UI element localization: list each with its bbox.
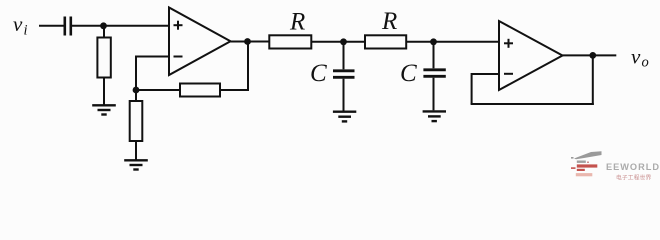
resistor R4 (feedback) — [180, 84, 220, 97]
resistor R5 (vertical, to ground) — [130, 101, 143, 141]
node C (opamp1 output) — [244, 38, 251, 45]
op-amp U2 plus input marker — [504, 39, 513, 48]
svg-text:R: R — [289, 9, 305, 36]
wire — [247, 42, 249, 92]
wire — [39, 25, 64, 27]
capacitor C1 — [333, 42, 355, 111]
node vo label — [631, 45, 649, 71]
resistor R2 — [365, 35, 406, 48]
node vi label — [13, 12, 28, 38]
node E — [430, 38, 437, 45]
op-amp U1 plus input marker — [174, 21, 183, 30]
node D — [340, 38, 347, 45]
wire — [563, 54, 617, 56]
wire — [72, 25, 169, 27]
svg-text:C: C — [400, 60, 417, 87]
ground — [423, 111, 446, 121]
capacitor C-in — [65, 17, 71, 36]
wire — [471, 103, 594, 105]
resistor R3 (vertical, input bias) — [97, 38, 110, 78]
capacitor C2 — [423, 42, 445, 111]
op-amp U1 minus input marker — [174, 56, 183, 58]
op-amp U2 minus input marker — [504, 73, 513, 75]
svg-text:v: v — [13, 12, 23, 36]
wire — [136, 89, 180, 91]
svg-text:R: R — [381, 8, 397, 35]
wire — [592, 55, 594, 105]
wire — [103, 78, 105, 105]
node B — [133, 87, 140, 94]
wire — [135, 90, 137, 101]
svg-text:C: C — [310, 60, 327, 87]
wire — [135, 141, 137, 160]
ground — [92, 105, 116, 114]
wire — [220, 89, 248, 91]
wire — [472, 73, 499, 75]
wire — [135, 56, 137, 91]
wire — [231, 41, 270, 43]
wire — [103, 26, 105, 38]
svg-text:v: v — [631, 45, 641, 69]
wire — [311, 41, 365, 43]
ground — [124, 160, 148, 169]
EEWORLD logo mark — [571, 151, 602, 176]
svg-text:o: o — [642, 55, 649, 71]
svg-text:EEWORLD: EEWORLD — [606, 162, 660, 172]
svg-text:i: i — [24, 23, 28, 39]
node A — [100, 22, 107, 29]
ground — [333, 112, 356, 122]
resistor R1 — [269, 35, 311, 48]
wire — [471, 73, 473, 104]
wire — [137, 56, 169, 58]
op-amp U1 — [169, 8, 231, 76]
op-amp U2 — [499, 21, 563, 90]
wire — [406, 41, 499, 43]
node F (output) — [589, 52, 596, 59]
svg-text:电子工程世界: 电子工程世界 — [616, 173, 651, 181]
